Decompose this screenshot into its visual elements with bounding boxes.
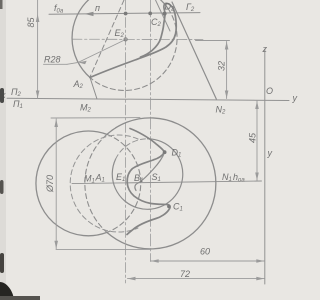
arrow on trace line xyxy=(85,12,94,16)
sphere axis center line (vertical) xyxy=(125,0,127,283)
cone axis center line (vertical) xyxy=(149,0,151,262)
svg-text:85: 85 xyxy=(26,16,36,27)
Г2 trace line (f0a) xyxy=(49,13,200,15)
dimension 32 xyxy=(196,40,230,42)
svg-text:y: y xyxy=(267,148,273,158)
cone left generator (hidden, dashed) xyxy=(90,0,124,77)
svg-text:60: 60 xyxy=(200,247,210,257)
z / y axis vertical xyxy=(264,49,266,284)
main x-axis line П2/П1 xyxy=(7,98,289,100)
dimension 60 xyxy=(151,260,265,262)
dimension 45 xyxy=(256,101,258,181)
dashed construction circle left xyxy=(70,135,138,232)
point C1 dot xyxy=(167,205,170,208)
medium circle: solid part xyxy=(112,139,183,210)
bottom left dark corner blob xyxy=(0,282,14,300)
svg-text:Ø70: Ø70 xyxy=(45,175,55,193)
scan artifacts: dark left edge marks xyxy=(0,0,3,9)
point D2 dot xyxy=(163,12,167,16)
svg-text:y: y xyxy=(292,93,298,103)
svg-text:O: O xyxy=(266,86,273,96)
dimension Ø70 xyxy=(51,117,140,119)
R28 arrowhead at circle xyxy=(78,61,87,65)
svg-text:32: 32 xyxy=(217,61,227,71)
sphere equator: hidden right part dashed xyxy=(107,134,141,232)
R28 radius line xyxy=(78,40,125,63)
cone base circle: hidden left part dashed xyxy=(85,134,107,232)
E2 horizontal center line xyxy=(72,38,203,40)
dimension 72 xyxy=(128,278,265,280)
h0a horizontal center line of bottom view xyxy=(72,181,262,184)
point D1 dot xyxy=(163,150,167,154)
dimension 85 vertical line xyxy=(37,0,39,99)
auxiliary generator through D2 xyxy=(156,0,171,31)
segment A2 to M2 xyxy=(90,78,97,100)
sphere circle frontal: solid part (from A2 ccw through left and top to right) xyxy=(72,0,168,77)
node dot on trace at cone axis xyxy=(148,12,152,16)
intersection curve frontal (banana with hook) xyxy=(90,3,176,77)
svg-text:z: z xyxy=(262,44,268,54)
R28 label and leader underline xyxy=(44,63,68,65)
svg-text:R28: R28 xyxy=(44,55,61,65)
sphere equator bottom view: solid left part xyxy=(36,131,107,236)
E2 center mark xyxy=(124,38,127,41)
svg-text:72: 72 xyxy=(180,269,190,279)
svg-text:п: п xyxy=(95,3,100,13)
medium circle: dashed upper-left part xyxy=(116,139,148,159)
second branch through B1 xyxy=(135,153,165,191)
intersection curve bottom view (yin-yang S curve) xyxy=(127,129,170,235)
node dot on trace at sphere axis xyxy=(124,12,128,16)
sphere circle frontal: dashed hidden part xyxy=(90,9,177,91)
svg-text:45: 45 xyxy=(248,132,258,143)
cone base circle bottom view: solid part xyxy=(107,118,216,249)
cone right generator xyxy=(172,2,216,99)
